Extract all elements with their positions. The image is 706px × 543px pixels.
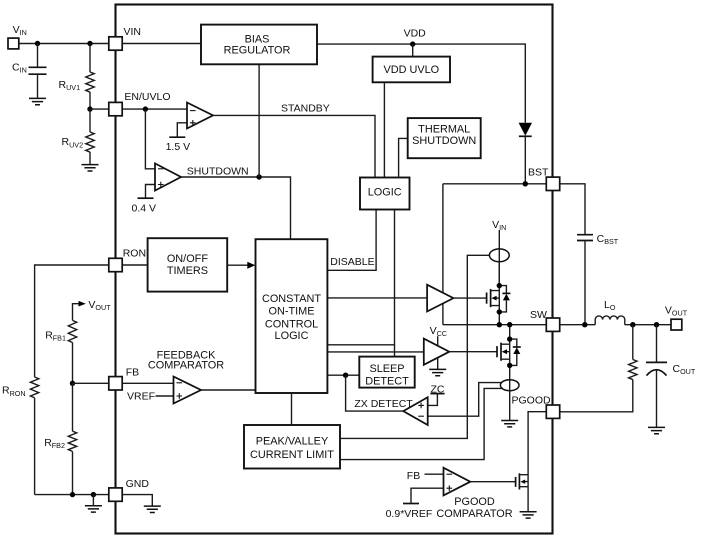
svg-text:CONTROL: CONTROL bbox=[265, 318, 318, 330]
resistor RUV1 bbox=[86, 44, 94, 110]
svg-text:VREF: VREF bbox=[127, 391, 155, 403]
svg-text:EN/UVLO: EN/UVLO bbox=[124, 91, 170, 103]
plus sign ZX detect bbox=[418, 403, 424, 409]
node VOUT-pullup junction bbox=[630, 322, 635, 327]
plus sign PGOOD comparator bbox=[447, 485, 453, 491]
wire VIN sense branch bbox=[498, 230, 500, 286]
transistor PGOOD pulldown FET bbox=[516, 473, 529, 511]
wire RON external bbox=[35, 265, 109, 377]
wire BST down leg bbox=[442, 184, 444, 325]
capacitor CBST bbox=[577, 235, 593, 325]
wire PGOOD comparator FB stub bbox=[425, 473, 444, 475]
op-amp standby comparator bbox=[187, 103, 213, 129]
svg-text:1.5 V: 1.5 V bbox=[166, 141, 191, 153]
svg-text:VCC: VCC bbox=[430, 325, 447, 338]
svg-text:SHUTDOWN: SHUTDOWN bbox=[187, 165, 249, 177]
svg-text:PGOOD: PGOOD bbox=[454, 496, 495, 508]
svg-text:RON: RON bbox=[123, 248, 146, 260]
terminal VOUT output bbox=[671, 319, 682, 330]
wire Vin input rail bbox=[19, 43, 109, 45]
wire RON pin to timers bbox=[122, 264, 147, 266]
minus sign feedback comparator bbox=[177, 382, 183, 384]
ground CIN bbox=[29, 98, 46, 104]
resistor RFB1 bbox=[68, 320, 76, 342]
svg-text:LOGIC: LOGIC bbox=[368, 186, 402, 198]
svg-text:ZC: ZC bbox=[431, 383, 445, 395]
resistor RUV2 bbox=[86, 109, 94, 165]
wire feedback comparator output bbox=[201, 389, 256, 391]
pin PGOOD bbox=[546, 405, 559, 418]
amp low-side gate driver bbox=[424, 339, 450, 365]
wire BST external bbox=[560, 184, 585, 235]
svg-text:0.9*VREF: 0.9*VREF bbox=[386, 508, 433, 520]
wire STANDBY bbox=[213, 115, 375, 177]
plus sign standby comparator bbox=[190, 120, 196, 126]
current sensor VIN (high-side) bbox=[489, 249, 509, 262]
svg-text:COMPARATOR: COMPARATOR bbox=[148, 359, 224, 371]
svg-text:COUT: COUT bbox=[673, 363, 696, 376]
node SHUTDOWN-bias junction bbox=[256, 174, 261, 179]
svg-text:THERMAL: THERMAL bbox=[418, 123, 470, 135]
transistor high-side FET bbox=[453, 262, 510, 325]
reference bar 1.5V bbox=[169, 136, 185, 138]
wire PGOOD pin to pulldown FET bbox=[528, 412, 546, 475]
wire 0.9VREF stub bbox=[411, 488, 444, 503]
svg-text:SW: SW bbox=[530, 309, 547, 321]
plus sign shutdown comparator bbox=[158, 182, 164, 188]
svg-text:DISABLE: DISABLE bbox=[330, 256, 374, 268]
wire VIN pin to bias regulator bbox=[122, 43, 201, 45]
terminal VIN input bbox=[8, 38, 19, 49]
node gnd-stub junction bbox=[91, 492, 96, 497]
wire bias regulator bottom bbox=[258, 64, 260, 177]
svg-text:PEAK/VALLEY: PEAK/VALLEY bbox=[256, 435, 329, 447]
svg-text:RFB2: RFB2 bbox=[44, 437, 65, 450]
pin VIN bbox=[109, 37, 122, 50]
node RFB2-gnd junction bbox=[70, 492, 75, 497]
block CONSTANT ON-TIME CONTROL LOGIC bbox=[256, 239, 328, 393]
capacitor CIN bbox=[29, 44, 47, 99]
ground VCC driver bbox=[429, 369, 446, 375]
svg-text:RUV2: RUV2 bbox=[62, 136, 84, 149]
wire RRON to gnd rail bbox=[34, 398, 36, 495]
wire DISABLE bbox=[327, 210, 376, 271]
svg-text:LO: LO bbox=[604, 299, 616, 312]
wire shutdown comparator minus input bbox=[145, 109, 155, 169]
wire FB rail bbox=[73, 382, 174, 384]
wire COT to sleep detect bbox=[327, 374, 359, 376]
wire low FET source to sense bbox=[509, 365, 511, 420]
pin GND bbox=[109, 488, 122, 501]
node low FET source bbox=[507, 363, 512, 368]
block SLEEP DETECT bbox=[359, 357, 414, 388]
svg-text:FB: FB bbox=[407, 470, 420, 482]
wire SW external bbox=[560, 324, 596, 326]
op-amp PGOOD comparator bbox=[444, 468, 471, 496]
wire SHUTDOWN bbox=[181, 177, 291, 239]
wire VREF stub bbox=[156, 395, 174, 397]
terminal bar ZC bbox=[430, 393, 444, 395]
svg-text:BST: BST bbox=[528, 166, 549, 178]
wire LO to VOUT terminal bbox=[625, 324, 671, 326]
svg-text:ON-TIME: ON-TIME bbox=[269, 306, 315, 318]
wire BST rail to driver bbox=[443, 183, 546, 185]
minus sign standby comparator bbox=[190, 110, 196, 112]
svg-text:FB: FB bbox=[126, 367, 139, 379]
block BIAS REGULATOR bbox=[201, 25, 317, 65]
svg-text:VIN: VIN bbox=[124, 26, 142, 38]
svg-text:VDD UVLO: VDD UVLO bbox=[383, 64, 439, 76]
ground RUV2 bbox=[82, 165, 99, 171]
wire valley current sense bbox=[340, 388, 503, 459]
minus sign PGOOD comparator bbox=[447, 473, 453, 475]
node BST-diode junction bbox=[523, 181, 528, 186]
svg-text:CIN: CIN bbox=[12, 62, 27, 75]
pin EN/UVLO bbox=[109, 102, 122, 115]
node EN/UVLO divider junction bbox=[87, 106, 92, 111]
wire COT to bottom driver bbox=[327, 351, 423, 353]
svg-text:RRON: RRON bbox=[2, 385, 26, 398]
resistor RFB2 bbox=[68, 383, 76, 494]
block LOGIC bbox=[360, 178, 410, 210]
block PEAK/VALLEY CURRENT LIMIT bbox=[244, 425, 340, 469]
pin BST bbox=[546, 177, 559, 190]
ground low-side sense bbox=[501, 421, 518, 427]
svg-text:RUV1: RUV1 bbox=[59, 79, 81, 92]
node high FET drain bbox=[497, 283, 502, 288]
wire thermal shutdown to logic bbox=[399, 138, 408, 177]
pin FB bbox=[109, 377, 122, 390]
wire VDD UVLO stub bbox=[412, 44, 414, 57]
minus sign ZX detect bbox=[418, 415, 424, 417]
wire 1.5V ref stub bbox=[177, 123, 187, 137]
current sensor low-side bbox=[500, 380, 519, 391]
node low FET drain bbox=[507, 336, 512, 341]
wire GND pin internal bbox=[122, 495, 152, 507]
reference bar 0.4V bbox=[138, 197, 154, 199]
svg-text:VIN: VIN bbox=[492, 219, 506, 232]
op-amp feedback comparator bbox=[174, 377, 202, 404]
arrowhead timers to COT bbox=[247, 262, 255, 269]
svg-text:DETECT: DETECT bbox=[365, 375, 409, 387]
wire timers to COT arrow bbox=[227, 264, 249, 266]
block ON/OFF TIMERS bbox=[148, 238, 228, 291]
wire logic to COT bbox=[327, 210, 394, 345]
inductor LO bbox=[595, 316, 625, 325]
block THERMAL SHUTDOWN bbox=[408, 118, 481, 158]
svg-text:VIN: VIN bbox=[13, 24, 27, 37]
node Vin-Ruv1 junction bbox=[87, 41, 92, 46]
svg-text:LOGIC: LOGIC bbox=[275, 330, 309, 342]
resistor RRON bbox=[30, 377, 38, 398]
node Vin-Cin junction bbox=[35, 41, 40, 46]
wire 0.4V ref stub bbox=[146, 185, 156, 199]
amp high-side gate driver bbox=[427, 285, 453, 312]
pin SW bbox=[546, 318, 559, 331]
node EN comparator tap bbox=[143, 106, 148, 111]
wire VCC driver supply bbox=[437, 336, 439, 369]
svg-text:VOUT: VOUT bbox=[665, 305, 688, 318]
svg-text:REGULATOR: REGULATOR bbox=[224, 44, 291, 56]
wire PGOOD comparator output bbox=[470, 481, 515, 483]
svg-text:0.4 V: 0.4 V bbox=[132, 203, 157, 215]
wire Vout feedback arrow stem bbox=[73, 304, 80, 321]
wire SW rail internal bbox=[443, 324, 546, 326]
node FB divider junction bbox=[70, 381, 75, 386]
svg-text:CURRENT LIMIT: CURRENT LIMIT bbox=[250, 449, 334, 461]
wire COT to peak/valley limit bbox=[291, 393, 293, 425]
wire ZC stub bbox=[428, 394, 438, 406]
svg-text:GND: GND bbox=[126, 478, 150, 490]
ground COUT bbox=[648, 427, 665, 433]
IC boundary bbox=[116, 5, 553, 534]
reference bar 0.9VREF bbox=[403, 503, 419, 505]
wire peak current sense bbox=[340, 255, 489, 438]
svg-text:SHUTDOWN: SHUTDOWN bbox=[412, 135, 476, 147]
node sleep-zx junction bbox=[343, 373, 348, 378]
wire EN/UVLO rail bbox=[90, 108, 187, 110]
svg-text:COMPARATOR: COMPARATOR bbox=[436, 508, 512, 520]
svg-text:CONSTANT: CONSTANT bbox=[262, 293, 321, 305]
wire VDD rail bbox=[317, 44, 525, 123]
op-amp ZX detect bbox=[403, 397, 427, 425]
svg-text:ZX DETECT: ZX DETECT bbox=[354, 398, 413, 410]
wire ZX detect output bbox=[346, 375, 404, 411]
minus sign shutdown comparator bbox=[158, 168, 164, 170]
svg-text:RFB1: RFB1 bbox=[45, 329, 66, 342]
svg-text:TIMERS: TIMERS bbox=[167, 265, 208, 277]
svg-text:PGOOD: PGOOD bbox=[512, 395, 552, 407]
arrowhead Vout bbox=[79, 301, 86, 307]
wire external GND rail bbox=[35, 494, 109, 496]
node SW-low FET junction bbox=[507, 322, 512, 327]
transistor low-side FET bbox=[449, 325, 521, 366]
svg-text:VOUT: VOUT bbox=[88, 299, 111, 312]
block VDD UVLO bbox=[373, 57, 450, 83]
capacitor COUT bbox=[646, 325, 667, 428]
wire logic to sleep detect bbox=[394, 345, 396, 357]
node high FET source bbox=[497, 309, 502, 314]
svg-text:VDD: VDD bbox=[404, 28, 427, 40]
ground external GND bbox=[85, 506, 102, 512]
resistor PGOOD pull-up bbox=[560, 325, 637, 412]
wire COT to top driver bbox=[327, 297, 427, 299]
node VDD bbox=[410, 41, 415, 46]
diode VDD-BST bbox=[519, 123, 532, 184]
ground PGOOD FET bbox=[520, 512, 537, 518]
wire VDD UVLO to logic bbox=[383, 82, 385, 177]
wire gnd stub bbox=[92, 495, 94, 506]
pin RON bbox=[109, 258, 122, 271]
node high FET to SW bbox=[497, 322, 502, 327]
plus sign feedback comparator bbox=[177, 393, 183, 399]
wire RFB1 to FB node bbox=[72, 343, 74, 384]
op-amp shutdown comparator bbox=[155, 163, 181, 190]
node SW-CBST junction bbox=[582, 322, 587, 327]
wire ZX minus to low-side sense bbox=[428, 383, 502, 417]
ground internal GND bbox=[144, 506, 161, 512]
svg-text:ON/OFF: ON/OFF bbox=[167, 253, 208, 265]
svg-text:SLEEP: SLEEP bbox=[369, 363, 404, 375]
svg-text:CBST: CBST bbox=[597, 233, 619, 246]
node VOUT-COUT junction bbox=[654, 322, 659, 327]
svg-text:STANDBY: STANDBY bbox=[281, 103, 330, 115]
